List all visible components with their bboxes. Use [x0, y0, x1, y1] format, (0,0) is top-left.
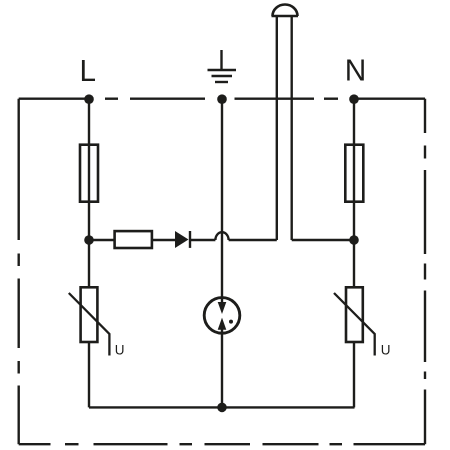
svg-text:N: N: [345, 53, 367, 88]
svg-text:U: U: [381, 343, 391, 358]
svg-text:L: L: [80, 53, 97, 88]
svg-text:U: U: [115, 343, 125, 358]
